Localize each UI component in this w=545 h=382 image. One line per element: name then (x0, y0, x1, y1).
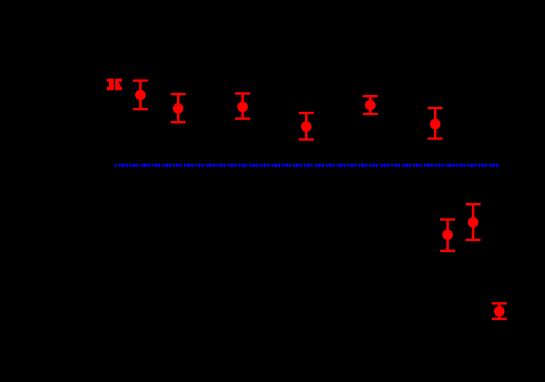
data point 5 (363, 95, 378, 115)
data point 7 (440, 218, 455, 252)
data point 3 (235, 92, 250, 120)
reference line (blue dotted) (115, 164, 500, 167)
data point 1 (133, 79, 148, 110)
legend glyph right bracket "[" (115, 79, 122, 91)
data point 4 (299, 112, 314, 141)
legend glyph left bracket "]" (107, 79, 114, 91)
data point 2 (171, 93, 186, 124)
data point 8 (466, 203, 481, 241)
data point 9 (492, 302, 507, 320)
data point 6 (428, 107, 443, 140)
